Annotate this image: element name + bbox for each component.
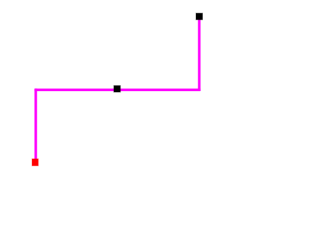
wire W2 (horizontal magenta segment) <box>35 88 201 91</box>
wire W1 (vertical magenta segment from top-right pin down to right corner) <box>198 17 201 91</box>
node terminal T1 (red square, bottom left) <box>32 159 38 166</box>
wire W3 (vertical magenta segment from left corner down to red terminal) <box>34 89 37 162</box>
node junction J1 (black square, middle of horizontal wire) <box>114 86 121 93</box>
node pin P1 (black square, top right) <box>196 13 203 20</box>
